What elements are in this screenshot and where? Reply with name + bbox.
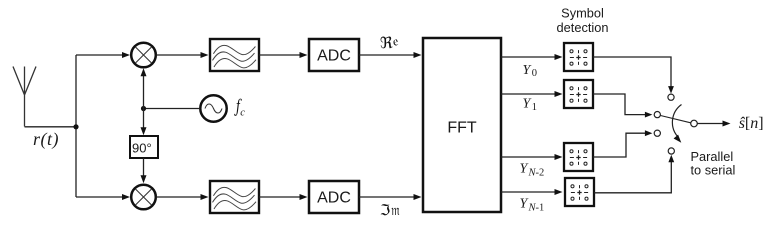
- svg-text:ADC: ADC: [317, 48, 351, 65]
- wire ADC2 to FFT (Im): [359, 196, 414, 198]
- wire FFT to detector D2 (Y1): [501, 93, 555, 95]
- switch pole (output): [691, 120, 698, 127]
- symbol detector D3: [564, 143, 593, 171]
- wire switch output: [697, 123, 723, 125]
- wire mixer M2 to LPF2: [156, 196, 201, 198]
- switch contact 3: [654, 130, 660, 136]
- wire LO up to mixer M1: [143, 75, 145, 109]
- node LO junction: [141, 106, 146, 111]
- svg-text:N-1: N-1: [528, 203, 545, 214]
- node split junction: [73, 124, 78, 129]
- wire oscillator to LO node: [144, 108, 201, 110]
- symbol detector D1: [564, 43, 593, 71]
- svg-text:to serial: to serial: [691, 163, 736, 178]
- svg-text:c: c: [240, 107, 245, 118]
- switch contact top: [668, 94, 674, 100]
- label Im (fraktur): [381, 204, 400, 215]
- mixer M2 (Q branch): [131, 185, 156, 210]
- wire mixer M1 to LPF1: [156, 54, 201, 56]
- FFT block U1: [423, 38, 501, 212]
- wire LPF2 to ADC2: [259, 196, 300, 198]
- wire FFT to detector D3 (YN-2): [501, 156, 555, 158]
- svg-text:detection: detection: [557, 20, 609, 35]
- svg-text:1: 1: [532, 102, 537, 113]
- wire D2 to switch contact 2: [593, 94, 646, 115]
- switch rotation arc: [672, 105, 681, 138]
- low-pass filter LPF1: [210, 39, 259, 71]
- symbol detector D4: [565, 178, 594, 206]
- wire LPF1 to ADC1: [259, 54, 300, 56]
- svg-text:Symbol: Symbol: [561, 6, 604, 21]
- svg-text:ADC: ADC: [317, 190, 351, 207]
- wire LO down to 90 deg box: [143, 109, 145, 130]
- wire D1 to switch top contact: [593, 57, 671, 87]
- switch contact bottom: [668, 148, 674, 154]
- antenna: [13, 67, 36, 127]
- svg-text:FFT: FFT: [447, 120, 477, 137]
- wire D3 to switch contact 3: [593, 133, 646, 157]
- svg-text:N-2: N-2: [528, 168, 545, 179]
- wire FFT to detector D1 (Y0): [501, 56, 555, 58]
- ADC2 (Q branch): [309, 181, 359, 213]
- wire D4 to switch bottom contact: [594, 161, 671, 193]
- label fc: [234, 99, 242, 116]
- symbol detector D2: [564, 80, 593, 108]
- switch wiper arm: [661, 116, 691, 123]
- ADC1 (I branch): [309, 39, 359, 71]
- svg-text:0: 0: [532, 68, 537, 79]
- wire split to mixer Q2: [76, 196, 122, 198]
- svg-text:r(t): r(t): [33, 129, 59, 150]
- wire split vertical: [75, 55, 77, 197]
- svg-text:90°: 90°: [132, 141, 152, 156]
- wire ADC1 to FFT (Re): [359, 54, 414, 56]
- wire split to mixer Q1: [76, 54, 122, 56]
- svg-text:ŝ[n]: ŝ[n]: [739, 115, 764, 132]
- mixer M1 (I branch): [131, 43, 156, 68]
- wire antenna to split node: [25, 126, 77, 128]
- wire 90deg to mixer M2: [143, 158, 145, 177]
- switch contact 2: [654, 112, 660, 118]
- label Re (fraktur): [381, 37, 399, 49]
- oscillator fc: [200, 95, 226, 121]
- phase shifter 90deg box: [130, 136, 158, 158]
- wire FFT to detector D4 (YN-1): [501, 191, 555, 193]
- low-pass filter LPF2: [210, 181, 259, 213]
